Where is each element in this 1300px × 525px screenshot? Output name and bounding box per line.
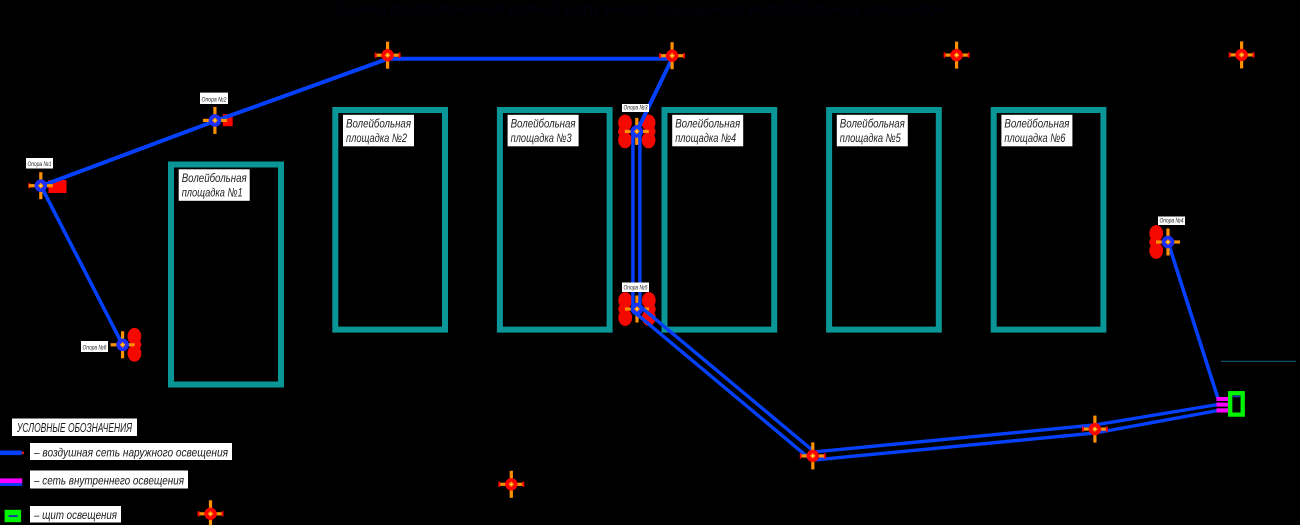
court 1 label box — [179, 169, 250, 201]
legend internal-network swatch — [0, 483, 22, 486]
court 3 label box — [508, 115, 579, 147]
lighting panel (щит освещения) — [1230, 393, 1243, 414]
svg-text:Волейбольная: Волейбольная — [675, 116, 740, 130]
svg-text:Волейбольная: Волейбольная — [182, 171, 247, 185]
floodlight lamps of pole 5 — [618, 292, 632, 326]
red box at pole 1 — [49, 180, 67, 193]
court 2 label box — [343, 115, 414, 147]
frame line fragment top right — [1221, 360, 1296, 362]
standalone pole bottom left — [198, 500, 224, 525]
floodlight lamps of pole 3 — [618, 115, 632, 149]
pole 3 label box — [622, 104, 649, 112]
svg-text:площадка №2: площадка №2 — [346, 131, 407, 145]
wire pole5-panel lower — [634, 312, 1218, 460]
svg-text:– щит освещения: – щит освещения — [33, 508, 117, 522]
pole 1 symbol (Опора №1) — [28, 183, 30, 188]
standalone pole top right — [1229, 41, 1255, 68]
pole 6 label box — [81, 341, 108, 352]
svg-text:Опора №3: Опора №3 — [624, 104, 648, 111]
volleyball court 1 outline — [171, 165, 281, 385]
svg-text:Схема расположения сетей наруж: Схема расположения сетей наружного освещ… — [335, 1, 946, 18]
overhead wire pole1-pole2-junctionA-junctionB-pole3 — [41, 59, 672, 186]
svg-text:Волейбольная: Волейбольная — [511, 116, 576, 130]
standalone pole top middle — [944, 42, 970, 69]
svg-text:Опора №6: Опора №6 — [83, 344, 107, 351]
pole 3 symbol (Опора №3) — [625, 118, 649, 145]
legend lighting-panel swatch — [5, 510, 22, 522]
volleyball court 2 outline — [335, 110, 445, 330]
svg-text:Опора №4: Опора №4 — [1160, 217, 1184, 224]
volleyball court 3 outline — [500, 110, 610, 330]
volleyball court 6 outline — [994, 110, 1104, 330]
pole 5 center diamond — [634, 306, 640, 312]
svg-text:площадка №1: площадка №1 — [182, 186, 243, 200]
court 4 label box — [672, 115, 743, 147]
svg-text:УСЛОВНЫЕ ОБОЗНАЧЕНИЯ: УСЛОВНЫЕ ОБОЗНАЧЕНИЯ — [16, 420, 132, 435]
legend overhead-network swatch — [0, 451, 22, 456]
svg-text:Опора №5: Опора №5 — [624, 284, 648, 291]
svg-text:– сеть внутреннего освещения: – сеть внутреннего освещения — [33, 474, 184, 488]
svg-text:площадка №4: площадка №4 — [675, 131, 736, 145]
svg-text:Волейбольная: Волейбольная — [346, 116, 411, 130]
volleyball court 5 outline — [829, 110, 939, 330]
court 6 label box — [1001, 115, 1072, 147]
feeder stub 3 — [1217, 408, 1229, 412]
legend row 2 label — [30, 471, 188, 489]
standalone pole bottom middle — [498, 471, 524, 498]
pole 6 symbol (Опора №6) — [111, 331, 135, 358]
pole 2 symbol (Опора №2) — [203, 107, 227, 134]
svg-text:Волейбольная: Волейбольная — [1004, 116, 1069, 130]
junction pole A — [375, 42, 401, 69]
lighting panel blue dash — [1233, 396, 1240, 398]
pole 5 symbol (Опора №5) — [625, 296, 649, 323]
floodlight lamps of pole 5 — [642, 292, 656, 326]
junction pole B — [659, 42, 685, 69]
pole 5 label box — [622, 283, 649, 293]
svg-text:площадка №3: площадка №3 — [511, 131, 572, 145]
pole 3 center diamond — [634, 129, 640, 135]
wire pole4-panel — [1168, 242, 1218, 399]
floodlight lamps of pole 4 — [1149, 225, 1163, 259]
court 5 label box — [837, 115, 908, 147]
junction pole C bottom — [800, 442, 826, 469]
wire pole1-pole6 — [41, 186, 123, 345]
svg-text:Опора №1: Опора №1 — [28, 161, 52, 168]
pole 2 label box — [200, 93, 228, 104]
legend title box — [12, 419, 137, 437]
svg-text:площадка №6: площадка №6 — [1004, 131, 1065, 145]
pole 1 label box — [26, 158, 53, 169]
junction pole D bottom — [1082, 416, 1108, 443]
floodlight lamps of pole 6 — [127, 328, 141, 362]
wire pole5-panel upper — [640, 306, 1218, 452]
feeder stub 1 — [1217, 397, 1229, 401]
wire pole3-pole5 line2 — [638, 131, 641, 309]
floodlight lamps of pole 3 — [642, 115, 656, 149]
pole 4 symbol (Опора №4) — [1156, 229, 1180, 256]
red box at pole 2 — [223, 114, 233, 126]
legend row 3 label — [30, 506, 121, 523]
svg-text:Волейбольная: Волейбольная — [840, 116, 905, 130]
volleyball court 4 outline — [665, 110, 775, 330]
legend row 1 label — [30, 443, 232, 460]
feeder stub 2 — [1217, 403, 1229, 407]
svg-text:Опора №2: Опора №2 — [202, 96, 227, 103]
pole 4 label box — [1158, 217, 1185, 226]
svg-text:– воздушная сеть наружного осв: – воздушная сеть наружного освещения — [33, 445, 228, 459]
svg-text:площадка №5: площадка №5 — [840, 131, 901, 145]
wire pole3-pole5 line1 — [631, 131, 634, 309]
